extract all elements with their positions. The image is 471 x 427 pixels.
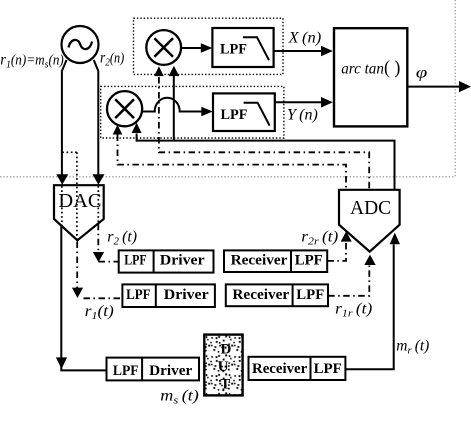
svg-text:U: U bbox=[218, 359, 229, 375]
svg-text:arc tan( ): arc tan( ) bbox=[341, 58, 400, 79]
svg-text:LPF: LPF bbox=[126, 287, 150, 303]
svg-text:LPF: LPF bbox=[113, 363, 139, 379]
svg-text:Receiver: Receiver bbox=[252, 361, 308, 377]
svg-text:LPF: LPF bbox=[220, 42, 247, 58]
svg-text:r2(n): r2(n) bbox=[100, 50, 124, 69]
svg-text:D: D bbox=[221, 341, 232, 357]
svg-text:φ: φ bbox=[416, 64, 428, 82]
svg-text:Receiver: Receiver bbox=[231, 253, 288, 269]
svg-text:r2 (t): r2 (t) bbox=[107, 229, 137, 248]
svg-text:LPF: LPF bbox=[295, 253, 323, 269]
svg-text:r2r (t): r2r (t) bbox=[301, 229, 338, 248]
svg-text:T: T bbox=[220, 377, 230, 393]
svg-text:ms (t): ms (t) bbox=[160, 388, 199, 407]
svg-text:Receiver: Receiver bbox=[232, 287, 289, 303]
svg-text:r1r (t): r1r (t) bbox=[335, 301, 372, 320]
svg-text:Driver: Driver bbox=[160, 253, 205, 269]
svg-text:X (n): X (n) bbox=[288, 30, 322, 47]
svg-text:Driver: Driver bbox=[149, 363, 193, 379]
svg-text:r1(n)=ms(n): r1(n)=ms(n) bbox=[0, 52, 64, 71]
svg-text:LPF: LPF bbox=[124, 253, 147, 269]
svg-text:Y (n): Y (n) bbox=[287, 106, 318, 123]
svg-text:r1(t): r1(t) bbox=[85, 303, 114, 322]
svg-text:LPF: LPF bbox=[221, 107, 248, 123]
svg-text:mr (t): mr (t) bbox=[396, 338, 429, 357]
svg-text:Driver: Driver bbox=[164, 287, 209, 303]
svg-text:ADC: ADC bbox=[350, 197, 391, 219]
svg-text:LPF: LPF bbox=[296, 287, 324, 303]
svg-text:LPF: LPF bbox=[314, 361, 342, 377]
svg-text:DAC: DAC bbox=[58, 190, 101, 212]
